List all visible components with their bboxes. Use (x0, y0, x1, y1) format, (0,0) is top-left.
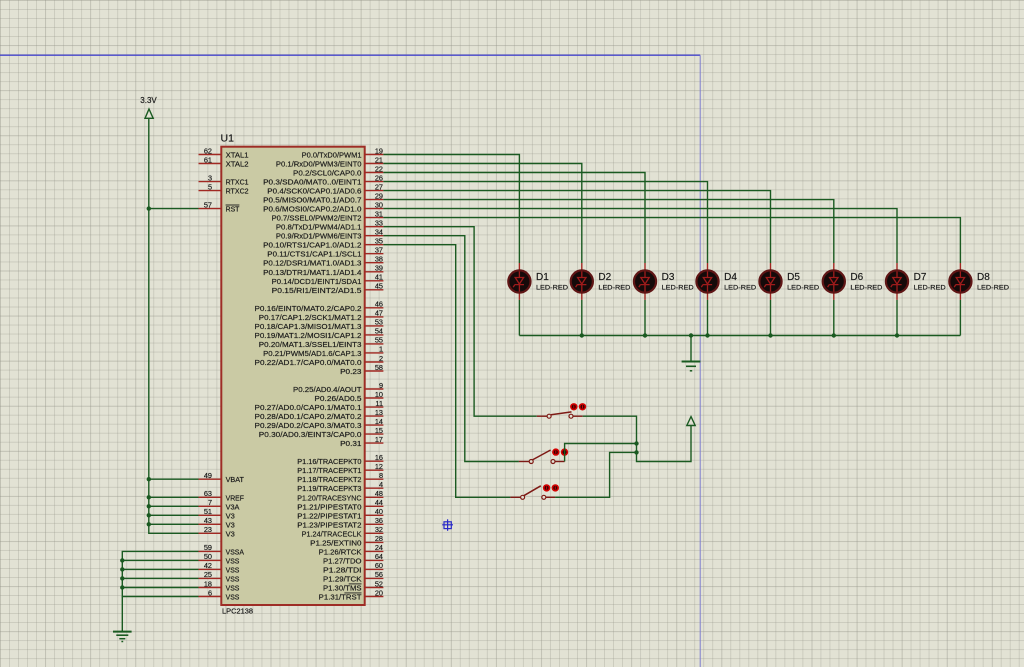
svg-text:64: 64 (375, 552, 383, 561)
svg-text:45: 45 (375, 282, 383, 291)
wire RST to 3.3V (149, 208, 199, 210)
svg-text:VSS: VSS (226, 556, 240, 565)
svg-text:P0.10/RTS1/CAP1.0/AD1.2: P0.10/RTS1/CAP1.0/AD1.2 (263, 241, 361, 250)
svg-text:P0.13/DTR1/MAT1.1/AD1.4: P0.13/DTR1/MAT1.1/AD1.4 (263, 268, 361, 277)
svg-text:38: 38 (375, 255, 383, 264)
wire U1 P0.4 to D5 (383, 191, 770, 263)
U1 pin 28 P1.25/EXTIN0 (310, 534, 383, 547)
junction VSS-25 (120, 576, 124, 580)
U1 pin 19 P0.0/TxD0/PWM1 (302, 146, 384, 159)
svg-text:VSS: VSS (226, 584, 240, 593)
U1 pin 36 P1.23/PIPESTAT2 (297, 516, 383, 529)
svg-text:11: 11 (375, 399, 383, 408)
U1 pin 13 P0.28/AD0.1/CAP0.2/MAT0.2 (255, 408, 384, 421)
IC U1 LPC2138 body (221, 133, 365, 616)
svg-text:P0.5/MISO0/MAT0.1/AD0.7: P0.5/MISO0/MAT0.1/AD0.7 (263, 196, 361, 205)
svg-text:43: 43 (204, 516, 212, 525)
junction VSS-50 (120, 558, 124, 562)
svg-text:48: 48 (375, 489, 383, 498)
U1 pin 45 P0.15/RI1/EINT2/AD1.5 (272, 282, 384, 295)
ground (LED bus) (682, 336, 701, 371)
U1 pin 2 P0.22/AD1.7/CAP0.0/MAT0.0 (255, 354, 384, 367)
svg-text:33: 33 (375, 219, 383, 228)
svg-text:25: 25 (204, 570, 212, 579)
svg-text:2: 2 (379, 354, 383, 363)
svg-text:P0.15/RI1/EINT2/AD1.5: P0.15/RI1/EINT2/AD1.5 (272, 286, 362, 295)
svg-text:49: 49 (204, 471, 212, 480)
svg-text:P0.16/EINT0/MAT0.2/CAP0.2: P0.16/EINT0/MAT0.2/CAP0.2 (255, 304, 362, 313)
U1 pin 46 P0.16/EINT0/MAT0.2/CAP0.2 (255, 300, 384, 313)
svg-text:46: 46 (375, 300, 383, 309)
wire VSS-25 (122, 577, 198, 579)
svg-text:P0.17/CAP1.2/SCK1/MAT1.2: P0.17/CAP1.2/SCK1/MAT1.2 (259, 313, 362, 322)
svg-text:VREF: VREF (226, 493, 245, 502)
LED D3 (LED-RED) (634, 263, 694, 300)
svg-text:P0.31: P0.31 (340, 439, 361, 448)
svg-text:28: 28 (375, 534, 383, 543)
wire U1 P0.10 to switch 3 (383, 245, 510, 498)
svg-text:35: 35 (375, 237, 383, 246)
U1 pin 18 VSS (199, 579, 240, 592)
svg-text:LED-RED: LED-RED (914, 284, 946, 291)
U1 pin 27 P0.4/SCK0/CAP0.1/AD0.6 (267, 182, 383, 195)
svg-text:7: 7 (208, 498, 212, 507)
junction V3A (147, 504, 151, 508)
U1 pin 4 P1.19/TRACEPKT3 (297, 480, 383, 493)
junction V3-51 (147, 513, 151, 517)
U1 pin 23 V3 (199, 525, 235, 538)
U1 pin 15 P0.30/AD0.3/EINT3/CAP0.0 (259, 426, 384, 439)
svg-text:32: 32 (375, 525, 383, 534)
svg-text:P0.12/DSR1/MAT1.0/AD1.3: P0.12/DSR1/MAT1.0/AD1.3 (263, 259, 361, 268)
wire U1 P0.6 to D7 (383, 209, 897, 263)
svg-text:P0.29/AD0.2/CAP0.3/MAT0.3: P0.29/AD0.2/CAP0.3/MAT0.3 (255, 421, 362, 430)
svg-text:30: 30 (375, 200, 383, 209)
svg-text:P1.16/TRACEPKT0: P1.16/TRACEPKT0 (297, 457, 361, 466)
wire VBAT (149, 478, 199, 480)
svg-text:29: 29 (375, 191, 383, 200)
svg-text:P0.20/MAT1.3/SSEL1/EINT3: P0.20/MAT1.3/SSEL1/EINT3 (259, 340, 362, 349)
U1 pin 25 VSS (199, 570, 240, 583)
U1 pin 31 P0.7/SSEL0/PWM2/EINT2 (272, 209, 384, 222)
U1 pin 6 VSS (199, 588, 240, 601)
U1 pin 35 P0.10/RTS1/CAP1.0/AD1.2 (263, 237, 383, 250)
junction VSS-18 (120, 585, 124, 589)
svg-text:P1.18/TRACEPKT2: P1.18/TRACEPKT2 (297, 475, 361, 484)
svg-text:8: 8 (379, 471, 383, 480)
svg-text:P1.22/PIPESTAT1: P1.22/PIPESTAT1 (297, 511, 361, 520)
power +3.3V (140, 96, 157, 118)
svg-text:LED-RED: LED-RED (662, 284, 694, 291)
U1 pin 63 VREF (199, 489, 245, 502)
svg-text:P1.19/TRACEPKT3: P1.19/TRACEPKT3 (297, 484, 361, 493)
wire switch 2 to common node (565, 444, 637, 462)
svg-text:P0.21/PWM5/AD1.6/CAP1.3: P0.21/PWM5/AD1.6/CAP1.3 (263, 349, 361, 358)
svg-text:VBAT: VBAT (226, 475, 245, 484)
svg-text:50: 50 (204, 552, 212, 561)
svg-text:36: 36 (375, 516, 383, 525)
svg-text:RTXC1: RTXC1 (226, 178, 249, 187)
wire V3-43 (149, 523, 199, 525)
svg-text:10: 10 (375, 390, 383, 399)
U1 pin 29 P0.5/MISO0/MAT0.1/AD0.7 (263, 191, 383, 204)
svg-text:21: 21 (375, 155, 383, 164)
U1 pin 64 P1.27/TDO (323, 552, 383, 565)
wire switch 1 to common node (583, 416, 691, 461)
wire U1 P0.2 to D3 (383, 173, 645, 264)
svg-text:58: 58 (375, 363, 383, 372)
junction D2 cathode (580, 333, 584, 337)
svg-text:27: 27 (375, 182, 383, 191)
LED D2 (LED-RED) (571, 263, 631, 300)
wire U1 P0.3 to D4 (383, 182, 707, 263)
U1 pin 22 P0.2/SCL0/CAP0.0 (293, 164, 383, 177)
svg-text:41: 41 (375, 273, 383, 282)
U1 pin 41 P0.14/DCD1/EINT1/SDA1 (272, 273, 384, 286)
svg-text:P0.27/AD0.0/CAP0.1/MAT0.1: P0.27/AD0.0/CAP0.1/MAT0.1 (255, 403, 362, 412)
wire V3A (149, 505, 199, 507)
svg-text:P0.19/MAT1.2/MOSI1/CAP1.2: P0.19/MAT1.2/MOSI1/CAP1.2 (255, 331, 362, 340)
svg-text:VSSA: VSSA (226, 547, 244, 556)
svg-text:P1.21/PIPESTAT0: P1.21/PIPESTAT0 (297, 502, 361, 511)
svg-text:V3: V3 (226, 520, 235, 529)
U1 pin 20 P1.31/TRST (319, 588, 384, 601)
LED D8 (LED-RED) (949, 263, 1009, 300)
U1 pin 24 P1.26/RTCK (319, 543, 384, 556)
wire VREF (149, 496, 199, 498)
svg-text:40: 40 (375, 507, 383, 516)
svg-text:P0.26/AD0.5: P0.26/AD0.5 (314, 394, 361, 403)
wire VSS-42 (122, 568, 198, 570)
svg-text:P1.30/TMS: P1.30/TMS (323, 584, 362, 593)
svg-text:V3: V3 (226, 511, 235, 520)
svg-text:3: 3 (208, 173, 212, 182)
U1 pin 61 XTAL2 (199, 155, 249, 168)
svg-text:51: 51 (204, 507, 212, 516)
push button switch 1 (537, 403, 586, 418)
U1 pin 52 P1.30/TMS (323, 579, 383, 592)
svg-text:V3A: V3A (226, 502, 240, 511)
U1 pin 39 P0.13/DTR1/MAT1.1/AD1.4 (263, 264, 383, 277)
sheet border (0, 55, 700, 667)
U1 pin 33 P0.8/TxD1/PWM4/AD1.1 (276, 219, 384, 232)
wire 3.3V rail (149, 118, 199, 533)
svg-text:P0.28/AD0.1/CAP0.2/MAT0.2: P0.28/AD0.1/CAP0.2/MAT0.2 (255, 412, 362, 421)
svg-text:D6: D6 (850, 272, 863, 283)
wire V3-51 (149, 514, 199, 516)
svg-text:P0.23: P0.23 (340, 367, 361, 376)
U1 pin 60 P1.28/TDI (323, 561, 383, 574)
svg-text:34: 34 (375, 228, 383, 237)
svg-text:62: 62 (204, 146, 212, 155)
svg-text:31: 31 (375, 209, 383, 218)
U1 pin 49 VBAT (199, 471, 245, 484)
U1 pin 40 P1.22/PIPESTAT1 (297, 507, 383, 520)
wire VSS-18 (122, 587, 198, 589)
junction VREF (147, 495, 151, 499)
wire U1 P0.5 to D6 (383, 200, 833, 263)
junction D4 cathode (705, 333, 709, 337)
svg-text:59: 59 (204, 543, 212, 552)
svg-text:18: 18 (204, 579, 212, 588)
svg-text:60: 60 (375, 561, 383, 570)
LED D5 (LED-RED) (759, 263, 819, 300)
wire switch 3 to common node (555, 452, 636, 497)
svg-text:RTXC2: RTXC2 (226, 187, 249, 196)
U1 pin 54 P0.19/MAT1.2/MOSI1/CAP1.2 (255, 327, 384, 340)
svg-text:P0.8/TxD1/PWM4/AD1.1: P0.8/TxD1/PWM4/AD1.1 (276, 223, 362, 232)
U1 pin 12 P1.17/TRACEPKT1 (297, 462, 383, 475)
wire VSS-50 (122, 559, 198, 561)
junction D3 cathode (643, 333, 647, 337)
svg-text:P0.18/CAP1.3/MISO1/MAT1.3: P0.18/CAP1.3/MISO1/MAT1.3 (255, 322, 362, 331)
origin marker (442, 519, 453, 531)
U1 pin 44 P1.21/PIPESTAT0 (297, 498, 383, 511)
junction switch2 node (634, 441, 638, 445)
svg-text:42: 42 (204, 561, 212, 570)
push button switch 3 (510, 484, 559, 499)
svg-text:P0.4/SCK0/CAP0.1/AD0.6: P0.4/SCK0/CAP0.1/AD0.6 (267, 187, 361, 196)
svg-text:P0.0/TxD0/PWM1: P0.0/TxD0/PWM1 (302, 151, 362, 160)
svg-text:D3: D3 (662, 272, 675, 283)
svg-text:XTAL2: XTAL2 (226, 160, 249, 169)
svg-text:LED-RED: LED-RED (850, 284, 882, 291)
wire U1 P0.8 to switch 1 (383, 227, 536, 417)
svg-text:56: 56 (375, 570, 383, 579)
wire U1 P0.9 to switch 2 (383, 236, 519, 462)
svg-text:P1.17/TRACEPKT1: P1.17/TRACEPKT1 (297, 466, 361, 475)
svg-text:LED-RED: LED-RED (787, 284, 819, 291)
svg-text:23: 23 (204, 525, 212, 534)
svg-text:55: 55 (375, 336, 383, 345)
U1 pin 38 P0.12/DSR1/MAT1.0/AD1.3 (263, 255, 383, 268)
svg-text:16: 16 (375, 453, 383, 462)
svg-text:57: 57 (204, 200, 212, 209)
U1 pin 30 P0.6/MOSI0/CAP0.2/AD1.0 (263, 200, 383, 213)
svg-text:6: 6 (208, 588, 212, 597)
svg-text:44: 44 (375, 498, 383, 507)
svg-text:15: 15 (375, 426, 383, 435)
svg-text:63: 63 (204, 489, 212, 498)
U1 pin 55 P0.20/MAT1.3/SSEL1/EINT3 (259, 336, 384, 349)
U1 pin 7 V3A (199, 498, 240, 511)
junction ground tap (689, 333, 693, 337)
wire U1 P0.0 to D1 (383, 155, 519, 264)
svg-text:D8: D8 (977, 272, 990, 283)
svg-text:P1.23/PIPESTAT2: P1.23/PIPESTAT2 (297, 520, 361, 529)
svg-text:24: 24 (375, 543, 383, 552)
svg-text:P0.1/RxD0/PWM3/EINT0: P0.1/RxD0/PWM3/EINT0 (276, 160, 362, 169)
U1 pin 8 P1.18/TRACEPKT2 (297, 471, 383, 484)
svg-text:20: 20 (375, 588, 383, 597)
junction switch3 node (634, 450, 638, 454)
svg-text:P0.14/DCD1/EINT1/SDA1: P0.14/DCD1/EINT1/SDA1 (272, 277, 362, 286)
U1 pin 42 VSS (199, 561, 240, 574)
junction D5 cathode (768, 333, 772, 337)
svg-text:P1.26/RTCK: P1.26/RTCK (319, 547, 362, 556)
U1 pin 51 V3 (199, 507, 235, 520)
svg-text:P1.28/TDI: P1.28/TDI (323, 565, 362, 574)
U1 pin 47 P0.17/CAP1.2/SCK1/MAT1.2 (259, 309, 384, 322)
U1 pin 62 XTAL1 (199, 146, 249, 159)
svg-text:61: 61 (204, 155, 212, 164)
power arrow (switch common) (687, 417, 695, 426)
junction V3-43 (147, 522, 151, 526)
LED D1 (LED-RED) (508, 263, 568, 300)
svg-text:P1.24/TRACECLK: P1.24/TRACECLK (302, 529, 362, 538)
svg-text:17: 17 (375, 435, 383, 444)
svg-text:VSS: VSS (226, 565, 240, 574)
U1 pin 59 VSSA (199, 543, 245, 556)
svg-text:26: 26 (375, 173, 383, 182)
svg-text:P0.7/SSEL0/PWM2/EINT2: P0.7/SSEL0/PWM2/EINT2 (272, 214, 362, 223)
svg-text:LED-RED: LED-RED (977, 284, 1009, 291)
U1 pin 56 P1.29/TCK (323, 570, 383, 583)
svg-text:LED-RED: LED-RED (598, 284, 630, 291)
wire LED cathode bus (519, 300, 960, 336)
svg-text:D5: D5 (787, 272, 800, 283)
svg-text:P1.29/TCK: P1.29/TCK (323, 574, 362, 583)
U1 pin 1 P0.21/PWM5/AD1.6/CAP1.3 (263, 345, 383, 358)
U1 pin 50 VSS (199, 552, 240, 565)
svg-text:LED-RED: LED-RED (724, 284, 756, 291)
svg-text:52: 52 (375, 579, 383, 588)
svg-text:22: 22 (375, 164, 383, 173)
svg-text:VSS: VSS (226, 574, 240, 583)
U1 pin 11 P0.27/AD0.0/CAP0.1/MAT0.1 (255, 399, 384, 412)
svg-text:D1: D1 (536, 272, 549, 283)
U1 pin 43 V3 (199, 516, 235, 529)
svg-text:P1.31/TRST: P1.31/TRST (319, 593, 362, 602)
U1 pin 34 P0.9/RxD1/PWM6/EINT3 (276, 228, 383, 241)
svg-text:53: 53 (375, 318, 383, 327)
junction VSS-42 (120, 567, 124, 571)
svg-text:VSS: VSS (226, 593, 240, 602)
svg-text:5: 5 (208, 182, 212, 191)
svg-text:RST: RST (226, 205, 240, 214)
svg-text:P0.25/AD0.4/AOUT: P0.25/AD0.4/AOUT (293, 385, 362, 394)
ground (VSS) (113, 632, 132, 642)
svg-text:V3: V3 (226, 529, 235, 538)
U1 pin 21 P0.1/RxD0/PWM3/EINT0 (276, 155, 383, 168)
wire U1 P0.1 to D2 (383, 164, 581, 264)
wire VSSA/VSS ground bus (122, 551, 198, 631)
wire U1 P0.7 to D8 (383, 218, 960, 263)
U1 pin 16 P1.16/TRACEPKT0 (297, 453, 383, 466)
U1 pin 32 P1.24/TRACECLK (302, 525, 384, 538)
U1 pin 37 P0.11/CTS1/CAP1.1/SCL1 (267, 246, 383, 259)
svg-text:XTAL1: XTAL1 (226, 151, 249, 160)
U1 pin 9 P0.25/AD0.4/AOUT (293, 381, 383, 394)
svg-text:P0.2/SCL0/CAP0.0: P0.2/SCL0/CAP0.0 (293, 169, 362, 178)
U1 pin 10 P0.26/AD0.5 (314, 390, 383, 403)
junction D7 cathode (895, 333, 899, 337)
junction RST (147, 206, 151, 210)
svg-text:P0.9/RxD1/PWM6/EINT3: P0.9/RxD1/PWM6/EINT3 (276, 232, 362, 241)
U1 pin 57 RST (199, 200, 240, 213)
svg-text:D7: D7 (914, 272, 927, 283)
svg-text:47: 47 (375, 309, 383, 318)
svg-text:P0.11/CTS1/CAP1.1/SCL1: P0.11/CTS1/CAP1.1/SCL1 (267, 250, 361, 259)
svg-text:4: 4 (379, 480, 383, 489)
LED D4 (LED-RED) (696, 263, 756, 300)
LED D7 (LED-RED) (886, 263, 946, 300)
U1 pin 5 RTXC2 (199, 182, 249, 195)
svg-text:39: 39 (375, 264, 383, 273)
svg-text:9: 9 (379, 381, 383, 390)
U1 pin 17 P0.31 (340, 435, 383, 448)
U1 pin 26 P0.3/SDA0/MAT0..0/EINT1 (263, 173, 383, 186)
svg-text:12: 12 (375, 462, 383, 471)
svg-text:LED-RED: LED-RED (536, 284, 568, 291)
U1 pin 3 RTXC1 (199, 173, 249, 186)
push button switch 2 (519, 448, 568, 463)
U1 pin 58 P0.23 (340, 363, 383, 376)
U1 pin 48 P1.20/TRACESYNC (297, 489, 383, 502)
svg-text:14: 14 (375, 417, 383, 426)
svg-text:P0.30/AD0.3/EINT3/CAP0.0: P0.30/AD0.3/EINT3/CAP0.0 (259, 430, 362, 439)
svg-text:3.3V: 3.3V (140, 96, 157, 105)
svg-text:U1: U1 (221, 133, 235, 145)
LED D6 (LED-RED) (823, 263, 883, 300)
svg-text:P0.22/AD1.7/CAP0.0/MAT0.0: P0.22/AD1.7/CAP0.0/MAT0.0 (255, 358, 362, 367)
svg-text:54: 54 (375, 327, 383, 336)
svg-text:LPC2138: LPC2138 (222, 606, 253, 615)
svg-text:19: 19 (375, 146, 383, 155)
U1 pin 14 P0.29/AD0.2/CAP0.3/MAT0.3 (255, 417, 384, 430)
svg-text:37: 37 (375, 246, 383, 255)
svg-text:P1.27/TDO: P1.27/TDO (323, 556, 362, 565)
svg-text:D2: D2 (598, 272, 611, 283)
svg-text:D4: D4 (724, 272, 737, 283)
svg-text:13: 13 (375, 408, 383, 417)
svg-text:1: 1 (379, 345, 383, 354)
junction VBAT (147, 477, 151, 481)
svg-text:P0.3/SDA0/MAT0..0/EINT1: P0.3/SDA0/MAT0..0/EINT1 (263, 178, 361, 187)
svg-text:P1.25/EXTIN0: P1.25/EXTIN0 (310, 538, 361, 547)
svg-text:P0.6/MOSI0/CAP0.2/AD1.0: P0.6/MOSI0/CAP0.2/AD1.0 (263, 205, 361, 214)
U1 pin 53 P0.18/CAP1.3/MISO1/MAT1.3 (255, 318, 384, 331)
svg-text:P1.20/TRACESYNC: P1.20/TRACESYNC (297, 493, 362, 502)
junction D6 cathode (832, 333, 836, 337)
